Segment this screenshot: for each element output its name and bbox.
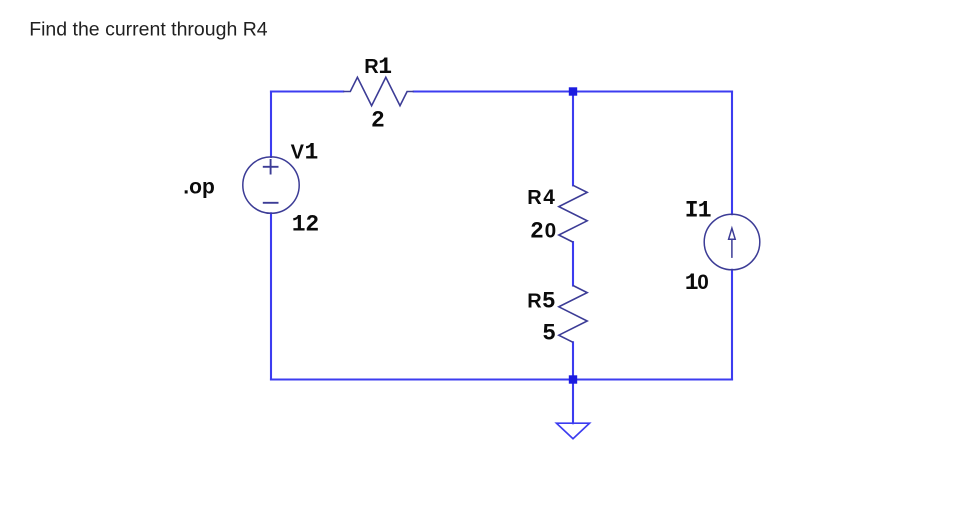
svg-text:0: 0 — [545, 219, 557, 242]
svg-text:1: 1 — [378, 54, 392, 80]
svg-text:R: R — [527, 291, 542, 313]
svg-text:0: 0 — [697, 271, 709, 294]
svg-text:5: 5 — [542, 289, 556, 315]
svg-text:5: 5 — [542, 321, 556, 347]
svg-text:2: 2 — [530, 218, 544, 244]
svg-text:V: V — [291, 141, 305, 163]
svg-text:4: 4 — [543, 186, 555, 209]
svg-text:2: 2 — [371, 107, 385, 133]
svg-text:1: 1 — [292, 212, 306, 238]
svg-text:I: I — [685, 197, 699, 223]
svg-text:R: R — [364, 56, 379, 78]
svg-text:.op: .op — [183, 176, 215, 199]
svg-text:1: 1 — [305, 139, 319, 165]
svg-text:2: 2 — [305, 212, 319, 238]
svg-text:Find the current through R4: Find the current through R4 — [29, 19, 268, 41]
svg-text:R: R — [527, 187, 542, 209]
svg-text:1: 1 — [698, 197, 712, 223]
